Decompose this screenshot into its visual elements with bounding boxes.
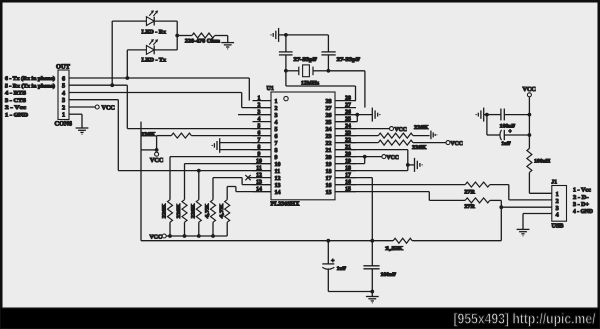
- svg-text:2: 2: [275, 106, 278, 112]
- LED D2 LED-Tx: [146, 46, 154, 55]
- ground at LED resistor: [221, 42, 234, 44]
- svg-text:11: 11: [256, 166, 262, 172]
- svg-text:4,7K: 4,7K: [219, 204, 225, 219]
- svg-text:12: 12: [256, 173, 262, 179]
- junction dot R network rail: [168, 234, 172, 238]
- junction dot pin21/18 ground: [406, 163, 410, 167]
- LED D1 LED-Rx: [146, 17, 154, 26]
- IC U1 right pin 16 stub: [335, 184, 356, 186]
- resistor 220K at IC pin 22: [335, 142, 378, 144]
- svg-text:LED - Tx: LED - Tx: [142, 58, 167, 64]
- resistor 220-470 Ohm: [192, 33, 215, 38]
- svg-text:+: +: [331, 257, 335, 264]
- svg-text:15: 15: [326, 190, 332, 196]
- resistor 220K at IC pin 6: [157, 135, 172, 137]
- svg-text:220K: 220K: [162, 204, 168, 219]
- sideways ground at pins 7/8: [219, 138, 221, 153]
- junction dot R network rail: [183, 234, 187, 238]
- svg-text:2 - D-: 2 - D-: [573, 195, 589, 201]
- op IC U1 body: [271, 92, 335, 200]
- LED-Rx anode wire: [111, 21, 113, 85]
- svg-text:VCC: VCC: [150, 157, 163, 164]
- svg-text:19: 19: [326, 162, 332, 168]
- IC U1 left pin 6 stub: [253, 135, 272, 137]
- IC pin-1 indicator circle: [284, 96, 288, 100]
- LED-Tx cathode wire: [154, 49, 177, 51]
- svg-text:4: 4: [556, 211, 559, 218]
- svg-text:VCC: VCC: [451, 141, 463, 147]
- svg-text:9: 9: [275, 155, 278, 161]
- wire conn pin 5 (Rx) to IC pin 5: [69, 84, 127, 86]
- resistor R net 220K #2: [182, 200, 187, 223]
- junction dot pin 26/25: [355, 113, 359, 117]
- svg-text:USB: USB: [552, 223, 564, 229]
- capacitor C2 27-33pF (right): [327, 35, 329, 52]
- svg-text:27R: 27R: [464, 204, 476, 210]
- svg-text:5: 5: [62, 83, 65, 90]
- svg-text:[955x493] http://upic.me/: [955x493] http://upic.me/: [454, 312, 596, 328]
- svg-text:1: 1: [275, 99, 278, 105]
- svg-text:OUT: OUT: [56, 63, 71, 70]
- svg-text:1uF: 1uF: [337, 266, 347, 272]
- wire IC pin 11 to R network: [198, 171, 200, 200]
- VCC stem at pin6/pin4: [156, 136, 158, 150]
- svg-text:+: +: [508, 129, 512, 135]
- wire inductor to USB pin 1: [528, 172, 530, 193]
- IC U1 right pin 19 stub: [335, 163, 356, 165]
- svg-text:VCC: VCC: [102, 105, 115, 112]
- wire IC pin 24 to VCC: [335, 128, 390, 130]
- resistor R net 220K #1: [168, 200, 173, 223]
- IC U1 left pin 14 stub: [253, 191, 272, 193]
- IC U1 right pin 17 stub: [335, 177, 356, 179]
- svg-text:3: 3: [556, 205, 559, 212]
- svg-text:6: 6: [275, 134, 278, 140]
- svg-text:2: 2: [62, 104, 65, 111]
- capacitor 1uF (top right, polarized): [486, 115, 488, 135]
- IC U1 right pin 18 stub: [335, 170, 356, 172]
- svg-text:1: 1: [62, 112, 65, 119]
- wire conn pin 2 to VCC: [69, 106, 95, 108]
- resistor R net 220K #3: [196, 200, 201, 223]
- IC U1 right pin 24 stub: [335, 128, 356, 130]
- svg-text:16: 16: [326, 183, 332, 189]
- svg-text:28: 28: [345, 96, 351, 102]
- svg-text:8: 8: [275, 148, 278, 154]
- junction dot Tx/LED-Tx: [125, 76, 129, 80]
- svg-text:6 - Tx (Rx in phone): 6 - Tx (Rx in phone): [5, 76, 55, 82]
- VCC symbol at R network: [162, 234, 166, 238]
- wire IC pin 13 to R network (jog past pin 12): [212, 178, 214, 200]
- resistor 27R (lower): [465, 198, 490, 203]
- 3.3V rail: [141, 240, 393, 242]
- IC U1 left pin 7 stub: [253, 142, 272, 144]
- svg-text:220K: 220K: [414, 125, 429, 131]
- ground at crystal caps: [278, 28, 280, 42]
- IC pin 12 stub extension: [247, 177, 253, 179]
- svg-text:U1: U1: [267, 86, 274, 92]
- svg-text:18: 18: [326, 169, 332, 175]
- svg-text:1uF: 1uF: [501, 141, 511, 147]
- USB pin 4 to ground: [523, 213, 552, 215]
- svg-text:2: 2: [556, 198, 559, 205]
- svg-text:LED - Rx: LED - Rx: [142, 29, 167, 35]
- svg-text:220K: 220K: [412, 145, 427, 151]
- svg-text:24: 24: [326, 127, 332, 133]
- capacitor 1uF (bottom, polarized): [327, 241, 329, 264]
- svg-text:4 - GND: 4 - GND: [573, 209, 593, 215]
- VCC symbol at pin 20: [382, 155, 386, 159]
- wire IC pin 25 to pin 26: [356, 115, 358, 122]
- junction dot bottom ground: [370, 290, 374, 294]
- svg-text:VCC: VCC: [150, 234, 163, 240]
- svg-text:1 - Vcc: 1 - Vcc: [573, 187, 591, 193]
- resistor 220K at IC pin 23: [335, 135, 378, 137]
- svg-text:2 - Vcc: 2 - Vcc: [5, 105, 27, 111]
- svg-text:PL2303HX: PL2303HX: [271, 202, 301, 208]
- svg-text:4: 4: [275, 120, 278, 126]
- wire resistor to ground: [215, 35, 228, 37]
- wire IC pin 10 to R network: [185, 163, 272, 165]
- svg-text:10: 10: [275, 162, 281, 168]
- wire IC pin 26 to ground: [335, 114, 372, 116]
- svg-text:220K: 220K: [141, 132, 156, 138]
- IC U1 left pin 8 stub: [253, 149, 272, 151]
- svg-text:5 - Rx (Tx in phone): 5 - Rx (Tx in phone): [5, 83, 55, 89]
- connector CON6 body: [58, 70, 69, 120]
- wire IC pin 14 to R network (jog): [226, 187, 228, 200]
- svg-text:11: 11: [275, 169, 281, 175]
- svg-text:4: 4: [258, 117, 261, 123]
- junction dot LED common: [175, 34, 179, 38]
- junction dot ground/1uF branch: [485, 113, 489, 117]
- svg-text:17: 17: [326, 176, 332, 182]
- IC U1 right pin 21 stub: [335, 149, 356, 151]
- wire conn pin 1 to ground: [69, 113, 82, 115]
- connector J1 USB body: [552, 186, 567, 222]
- svg-text:3 - D+: 3 - D+: [573, 202, 589, 208]
- IC U1 left pin 12 stub: [253, 177, 272, 179]
- svg-text:1: 1: [556, 191, 559, 198]
- svg-text:23: 23: [326, 134, 332, 140]
- sideways ground at pin 26: [371, 108, 373, 122]
- junction dot R network rail: [197, 234, 201, 238]
- wire IC pin 8 to ground: [220, 149, 271, 151]
- LED-Tx anode wire: [126, 50, 128, 78]
- wire IC pin 17 to 100nF cap: [335, 177, 372, 179]
- svg-text:4: 4: [62, 90, 65, 97]
- wire crystal left node to IC pin 28: [285, 71, 287, 86]
- svg-text:12: 12: [275, 176, 281, 182]
- wire LED common to resistor: [177, 35, 192, 37]
- svg-text:220-470 Ohm: 220-470 Ohm: [185, 39, 220, 45]
- ground at USB pin 4: [517, 228, 530, 230]
- svg-text:13: 13: [275, 183, 281, 189]
- svg-text:VCC: VCC: [395, 127, 407, 133]
- svg-text:J1: J1: [551, 179, 557, 185]
- junction dot VCC/1uF: [528, 133, 532, 137]
- wire 1.5K pull-up to D+: [500, 207, 502, 241]
- junction dot CTS net / 220K R3: [197, 169, 201, 173]
- wire IC pin 4 to VCC stem: [140, 122, 142, 241]
- svg-text:6: 6: [62, 75, 65, 82]
- svg-text:4,7K: 4,7K: [205, 204, 211, 219]
- IC U1 left pin 9 stub: [253, 156, 272, 158]
- svg-text:7: 7: [275, 141, 278, 147]
- IC U1 right pin 15 stub: [335, 191, 356, 193]
- VCC symbol near pin 6: [155, 152, 159, 156]
- capacitor C1 27-33pF (left): [285, 35, 287, 52]
- LED-Rx cathode wire: [154, 20, 177, 22]
- wire crystal cap top rail: [286, 34, 329, 36]
- sideways ground at pins 21/18: [414, 158, 416, 172]
- VCC rail under R network: [166, 235, 227, 237]
- svg-text:22: 22: [326, 141, 332, 147]
- wire IC pin 9 to R network: [170, 156, 271, 158]
- wire IC pin 20 to VCC: [335, 156, 382, 158]
- svg-text:4 - RTS: 4 - RTS: [5, 91, 26, 97]
- IC U1 left pin 10 stub: [253, 163, 272, 165]
- IC U1 right pin 20 stub: [335, 156, 356, 158]
- IC U1 left pin 13 stub: [253, 184, 272, 186]
- svg-text:21: 21: [326, 148, 332, 154]
- IC U1 left pin 3 stub: [253, 114, 272, 116]
- svg-text:3: 3: [275, 113, 278, 119]
- no-connect X on IC pin 12: [245, 175, 250, 180]
- junction dot pin17 / 3.3V rail: [370, 239, 374, 243]
- IC U1 left pin 11 stub: [253, 170, 272, 172]
- IC U1 right pin 26 stub: [335, 114, 356, 116]
- IC U1 left pin 1 stub: [253, 100, 272, 102]
- wire IC pin 19 to pin 20: [364, 157, 366, 164]
- capacitor 100nF (top right): [487, 114, 501, 116]
- wire conn pin 3 (CTS) to IC pin 11: [69, 99, 118, 101]
- resistor R net 4,7K #5: [225, 200, 230, 223]
- junction dot Rx/LED-Rx: [110, 83, 114, 87]
- svg-text:100nF: 100nF: [381, 272, 397, 278]
- svg-text:1,5K: 1,5K: [385, 246, 404, 252]
- resistor R net 4,7K #4: [211, 200, 216, 223]
- resistor 27R (upper): [465, 182, 490, 187]
- LED-Tx emission arrows: [149, 41, 156, 45]
- IC U1 left pin 2 stub: [253, 107, 272, 109]
- svg-text:27R: 27R: [464, 190, 476, 196]
- junction dot VCC/100nF: [528, 113, 532, 117]
- svg-text:27-33pF: 27-33pF: [294, 57, 318, 63]
- IC U1 left pin 5 stub: [253, 128, 272, 130]
- wire IC pin 21 / pin 18 to ground: [335, 149, 408, 151]
- junction dot R network rail: [211, 234, 215, 238]
- svg-text:5: 5: [258, 124, 261, 130]
- wire IC pin 16 through 27R to USB pin 2: [335, 184, 465, 186]
- svg-text:27: 27: [326, 106, 332, 112]
- svg-text:CON6: CON6: [55, 121, 73, 128]
- sideways ground at 100nF: [483, 108, 485, 122]
- crystal Y1 12MHz: [286, 70, 299, 72]
- ground at conn pin 1: [76, 127, 89, 129]
- svg-text:1 - GND: 1 - GND: [5, 112, 28, 118]
- wire conn pin 6 (Tx) to IC pin 1: [69, 77, 249, 79]
- svg-text:3: 3: [62, 97, 65, 104]
- VCC symbol at conn pin 2: [95, 105, 99, 109]
- IC U1 right pin 28 stub: [335, 100, 356, 102]
- svg-text:28: 28: [326, 99, 332, 105]
- junction dot cap rail: [284, 33, 288, 37]
- junction dot VCC stem: [155, 148, 159, 152]
- IC pin 3 stub extension: [238, 114, 271, 116]
- VCC symbol at pin 24: [390, 127, 394, 131]
- IC U1 right pin 22 stub: [335, 142, 356, 144]
- svg-text:14: 14: [275, 190, 281, 196]
- svg-text:20: 20: [326, 155, 332, 161]
- junction dot pin 20/19: [363, 155, 367, 159]
- svg-text:3 - CTS: 3 - CTS: [5, 98, 26, 104]
- wire IC pin 15 through 27R to USB pin 3: [335, 191, 429, 193]
- bottom ground wire: [328, 291, 372, 293]
- ground at bottom caps: [366, 296, 379, 298]
- LED-Rx emission arrows: [149, 12, 156, 16]
- resistor 1,5K: [393, 238, 412, 243]
- junction dot crystal right node: [327, 69, 331, 73]
- IC U1 right pin 25 stub: [335, 121, 356, 123]
- svg-text:1: 1: [258, 96, 261, 102]
- svg-text:25: 25: [326, 120, 332, 126]
- svg-text:VCC: VCC: [522, 86, 535, 93]
- wire IC pin 7 to ground: [220, 142, 271, 144]
- VCC symbol at pin 22: [446, 141, 450, 145]
- junction dot D+ / 1.5K: [499, 205, 503, 209]
- svg-text:220K: 220K: [176, 204, 182, 219]
- svg-text:100uH: 100uH: [534, 158, 551, 164]
- IC U1 left pin 4 stub: [253, 121, 272, 123]
- svg-text:26: 26: [326, 113, 332, 119]
- svg-text:220K: 220K: [191, 204, 197, 219]
- junction dot crystal left node: [284, 69, 288, 73]
- IC U1 right pin 23 stub: [335, 135, 356, 137]
- sideways ground at pin 23: [430, 131, 432, 140]
- svg-text:27: 27: [345, 103, 351, 109]
- svg-text:5: 5: [275, 127, 278, 133]
- wire crystal right node to IC pin 27: [328, 70, 365, 72]
- svg-text:27-33pF: 27-33pF: [337, 57, 361, 63]
- svg-text:VCC: VCC: [387, 155, 399, 161]
- wire conn pin 4 (RTS) to IC pin 2: [69, 92, 242, 94]
- junction dot 1uF / rail: [326, 239, 330, 243]
- inductor 100uH: [527, 149, 532, 173]
- VCC stem down to inductor: [528, 97, 530, 149]
- IC U1 right pin 27 stub: [335, 107, 356, 109]
- capacitor 100nF (bottom): [363, 265, 379, 267]
- svg-text:2: 2: [258, 103, 261, 109]
